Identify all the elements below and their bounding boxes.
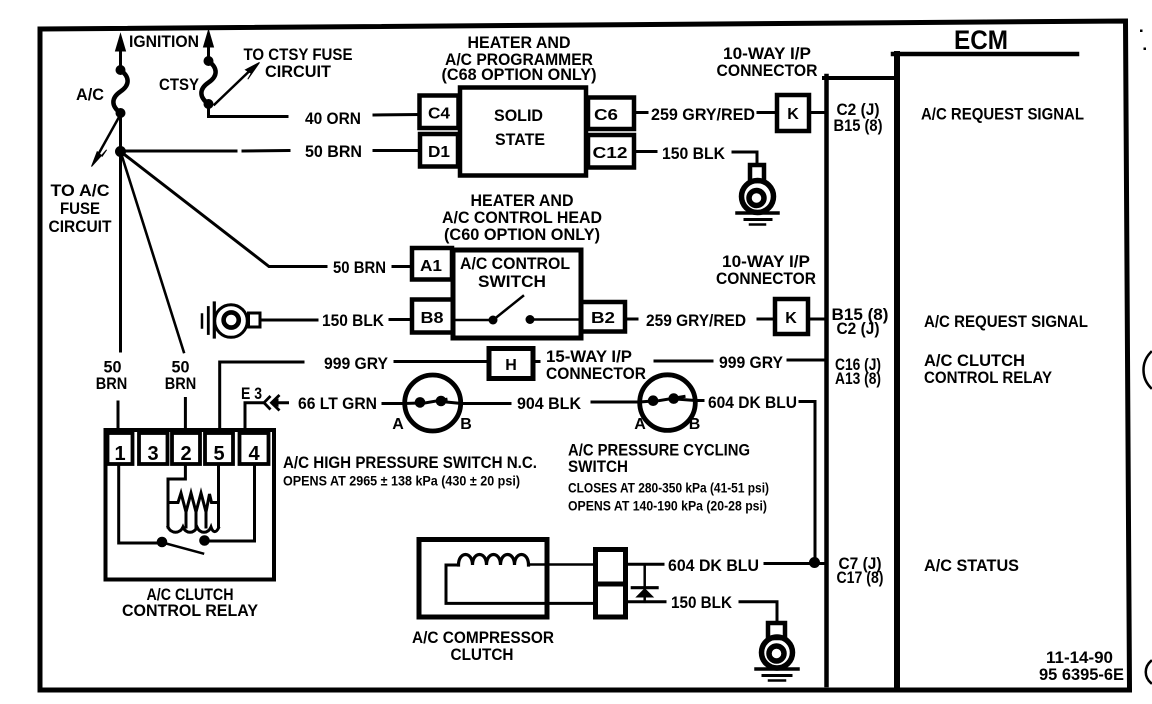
svg-text:A13 (8): A13 (8) <box>835 369 881 388</box>
relay pin 4 <box>240 433 269 464</box>
pin B8 <box>412 300 453 333</box>
scan artifact right bottom <box>1146 661 1151 683</box>
pin B2 <box>581 302 625 332</box>
svg-text:A: A <box>392 416 404 433</box>
svg-text:999 GRY: 999 GRY <box>719 353 784 372</box>
switch contact right <box>526 315 535 324</box>
svg-text:TO A/C: TO A/C <box>51 181 110 200</box>
svg-text:50 BRN: 50 BRN <box>305 142 362 161</box>
pressure switch SW2 pressure cycling <box>640 375 696 431</box>
junction node <box>115 146 126 157</box>
svg-text:95 6395-6E: 95 6395-6E <box>1039 665 1124 684</box>
svg-text:SWITCH: SWITCH <box>568 457 628 476</box>
svg-text:STATE: STATE <box>495 130 545 149</box>
svg-text:CONNECTOR: CONNECTOR <box>546 364 646 383</box>
SECTION: programmer <box>420 33 826 225</box>
svg-text:H: H <box>505 357 517 374</box>
wire 999 GRY left <box>220 362 489 431</box>
wire 50 BRN diagonal to A1 <box>121 152 413 267</box>
svg-text:150 BLK: 150 BLK <box>322 311 385 330</box>
svg-text:IGNITION: IGNITION <box>129 32 199 51</box>
svg-text:BRN: BRN <box>96 374 128 393</box>
relay pin 1 <box>108 433 133 464</box>
svg-text:259 GRY/RED: 259 GRY/RED <box>651 105 755 124</box>
ground G2 <box>756 623 798 681</box>
SECTION: relay <box>96 358 274 621</box>
wire pin1 to contact <box>119 464 157 543</box>
box A/C compressor clutch <box>419 540 547 618</box>
svg-text:A: A <box>634 416 646 433</box>
wire pin2 to coil <box>168 464 185 502</box>
svg-text:259 GRY/RED: 259 GRY/RED <box>646 311 746 330</box>
svg-text:A1: A1 <box>420 258 442 275</box>
svg-text:A/C CONTROL: A/C CONTROL <box>460 254 570 273</box>
relay contact left <box>157 537 168 548</box>
wire K row2 to ECM <box>808 318 825 321</box>
relay contact right <box>199 535 210 546</box>
chassis ground (left) <box>202 303 260 337</box>
pin A1 <box>412 248 452 280</box>
svg-text:OPENS AT 140-190 kPa (20-28 ps: OPENS AT 140-190 kPa (20-28 psi) <box>568 499 767 514</box>
junction node 604 DK BLU <box>809 557 820 568</box>
svg-text:904 BLK: 904 BLK <box>517 394 582 413</box>
connector K (row1) <box>777 95 809 131</box>
svg-text:A/C REQUEST SIGNAL: A/C REQUEST SIGNAL <box>924 312 1088 331</box>
wire 604 DK BLU to ECM junction <box>696 401 816 562</box>
relay pin 3 <box>139 433 168 464</box>
wire stub to pin 1 <box>117 402 120 430</box>
wire A/C fuse to junction <box>119 113 122 151</box>
svg-text:SWITCH: SWITCH <box>478 272 546 291</box>
svg-text:C2 (J): C2 (J) <box>837 319 880 338</box>
arrow E3 double chevron <box>264 395 280 411</box>
fuse CTSY <box>201 30 215 109</box>
wire junction down to relay pin 1 <box>119 152 122 352</box>
wire 66 LT GRN <box>383 402 405 405</box>
svg-text:A/C: A/C <box>76 85 104 104</box>
svg-text:B8: B8 <box>421 310 444 327</box>
wire diagonal junction to relay pin 2 <box>121 152 184 353</box>
wire 50 BRN to D1 <box>126 149 420 153</box>
SECTION: control head <box>202 191 825 338</box>
wire K to ECM row1 <box>809 111 825 114</box>
arrow to CTSY fuse circuit <box>215 63 260 105</box>
svg-text:50 BRN: 50 BRN <box>333 258 386 277</box>
wire 904 BLK <box>462 402 640 404</box>
svg-text:CONTROL RELAY: CONTROL RELAY <box>122 601 259 620</box>
SECTION: compressor <box>412 540 825 681</box>
wire 604 DK BLU bottom <box>626 562 826 566</box>
wire 259 GRY/RED row1 <box>634 111 776 114</box>
svg-text:150 BLK: 150 BLK <box>662 144 726 163</box>
svg-text:CIRCUIT: CIRCUIT <box>265 62 332 81</box>
svg-text:604 DK BLU: 604 DK BLU <box>668 556 759 575</box>
pin C4 <box>420 96 459 129</box>
svg-text:E 3: E 3 <box>241 384 262 403</box>
relay K1 outer box <box>106 430 275 580</box>
scan artifact right mid <box>1144 352 1152 388</box>
ground G1 <box>737 165 778 225</box>
svg-text:C6: C6 <box>594 107 618 124</box>
switch contact left <box>489 316 498 325</box>
svg-text:OPENS AT 2965 ± 138 kPa (430 ±: OPENS AT 2965 ± 138 kPa (430 ± 20 psi) <box>283 474 520 489</box>
svg-text:K: K <box>785 310 797 327</box>
connector H 15-way <box>489 349 533 379</box>
ECM box top edge <box>893 52 1077 57</box>
connector K (row2) <box>775 299 808 334</box>
svg-text:4: 4 <box>248 443 260 465</box>
pin D1 <box>420 134 458 167</box>
svg-text:SOLID: SOLID <box>494 106 543 125</box>
ECM box left edge <box>894 54 900 685</box>
svg-text:2: 2 <box>180 443 191 465</box>
svg-text:CLUTCH: CLUTCH <box>451 645 514 664</box>
wire coil left lead <box>446 565 595 603</box>
SECTION: ECM <box>824 25 1151 685</box>
svg-text:CLOSES AT 280-350 kPa (41-51 p: CLOSES AT 280-350 kPa (41-51 psi) <box>568 481 769 496</box>
svg-text:FUSE: FUSE <box>60 199 100 218</box>
svg-text:A/C STATUS: A/C STATUS <box>924 556 1019 575</box>
wire 150 BLK bottom <box>626 602 778 623</box>
pin C12 <box>588 135 634 168</box>
ECM connector strip top edge <box>824 76 897 80</box>
svg-text:BRN: BRN <box>165 374 197 393</box>
svg-text:5: 5 <box>213 443 224 465</box>
svg-text:(C60 OPTION ONLY): (C60 OPTION ONLY) <box>444 225 600 244</box>
scan artifact speck top right a <box>1140 30 1143 33</box>
svg-text:A/C HIGH PRESSURE SWITCH N.C.: A/C HIGH PRESSURE SWITCH N.C. <box>283 453 537 472</box>
svg-text:B: B <box>460 416 472 433</box>
svg-text:66 LT GRN: 66 LT GRN <box>298 394 377 413</box>
wire 999 GRY right <box>533 360 825 362</box>
connector bottom half <box>596 584 626 617</box>
svg-text:40 ORN: 40 ORN <box>305 109 361 128</box>
fuse A/C (ignition feed) <box>113 34 127 118</box>
wire CTSY fuse to 40 ORN <box>209 104 420 117</box>
svg-text:B15 (8): B15 (8) <box>834 116 883 135</box>
wire E3 from relay pin 4 <box>245 403 288 428</box>
svg-text:B2: B2 <box>591 310 615 327</box>
svg-text:CONNECTOR: CONNECTOR <box>716 269 816 288</box>
svg-text:CONTROL RELAY: CONTROL RELAY <box>924 368 1053 387</box>
wire internal contact to B2 <box>534 318 581 321</box>
connector top half <box>596 550 626 585</box>
svg-text:C4: C4 <box>428 106 450 123</box>
svg-text:(C68 OPTION ONLY): (C68 OPTION ONLY) <box>442 65 597 84</box>
svg-text:B: B <box>689 416 701 433</box>
wire 150 BLK (control head) <box>261 318 412 322</box>
svg-text:CIRCUIT: CIRCUIT <box>49 217 113 236</box>
relay pin 2 <box>172 433 200 464</box>
svg-text:CTSY: CTSY <box>159 75 200 94</box>
svg-text:1: 1 <box>114 443 125 465</box>
svg-text:C17 (8): C17 (8) <box>837 568 884 587</box>
wire internal B8 to contact <box>453 319 489 322</box>
svg-text:CONNECTOR: CONNECTOR <box>717 61 818 80</box>
svg-text:3: 3 <box>147 443 158 465</box>
svg-text:ECM: ECM <box>954 25 1008 55</box>
SECTION: middle rows <box>220 347 825 561</box>
arrow to A/C fuse circuit <box>92 118 119 167</box>
wire 150 BLK row1 <box>634 152 757 166</box>
diode D1 <box>632 565 657 602</box>
wire coil right lead <box>529 563 596 566</box>
wire 259 GRY/RED row2 <box>625 318 775 321</box>
switch arm <box>495 296 523 319</box>
wire stub to pin 2 <box>184 399 187 431</box>
box S1 A/C control switch <box>453 250 581 338</box>
svg-text:D1: D1 <box>428 144 450 161</box>
svg-text:604 DK BLU: 604 DK BLU <box>708 393 797 412</box>
SECTION: top-left fuses <box>49 30 421 352</box>
svg-text:C12: C12 <box>593 145 628 162</box>
pin C6 <box>588 98 634 130</box>
wire pin4 to contact <box>209 464 255 541</box>
relay coil L1 <box>168 465 219 532</box>
svg-text:K: K <box>787 106 799 123</box>
pressure switch SW1 A/C high pressure <box>405 375 462 431</box>
svg-text:A/C REQUEST SIGNAL: A/C REQUEST SIGNAL <box>921 105 1084 124</box>
ECM connector strip left edge <box>824 76 829 685</box>
box U1 solid state programmer <box>460 88 586 176</box>
svg-text:150 BLK: 150 BLK <box>671 593 733 612</box>
relay switch arm <box>166 544 203 554</box>
scan artifact speck top right b <box>1144 48 1147 51</box>
relay pin 5 <box>205 433 233 464</box>
svg-text:999 GRY: 999 GRY <box>324 354 389 373</box>
clutch coil L2 <box>459 555 529 566</box>
